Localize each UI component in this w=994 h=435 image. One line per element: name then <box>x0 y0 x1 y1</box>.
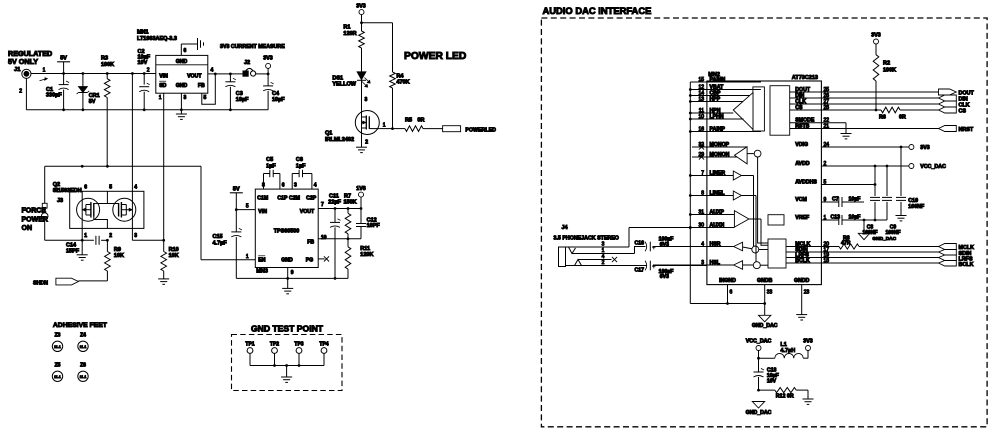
pin AUXP 31 <box>690 209 734 215</box>
svg-text:R5: R5 <box>405 118 412 124</box>
resistor R4 470K <box>390 72 410 130</box>
svg-text:ON: ON <box>22 225 33 232</box>
svg-text:4.7µH: 4.7µH <box>780 348 795 354</box>
connector J4 phonejack <box>554 225 648 267</box>
ground MN3 pin9 <box>282 268 293 294</box>
svg-text:AVDD: AVDD <box>795 161 810 167</box>
svg-text:POWER LED: POWER LED <box>404 51 466 62</box>
svg-text:EN: EN <box>258 257 265 263</box>
svg-text:MONON: MONON <box>710 152 730 158</box>
capacitor C8 100NF <box>862 166 880 236</box>
pin HSL 3 <box>653 260 734 266</box>
svg-text:31: 31 <box>698 209 704 215</box>
resistor R6 0R <box>876 107 939 120</box>
svg-text:47R: 47R <box>841 241 851 247</box>
svg-text:3V3: 3V3 <box>920 145 929 151</box>
svg-text:TP2: TP2 <box>270 341 279 347</box>
svg-text:C6: C6 <box>296 157 303 163</box>
svg-text:GND: GND <box>176 59 188 65</box>
svg-text:1V8: 1V8 <box>356 186 365 192</box>
svg-text:R2: R2 <box>883 61 890 67</box>
wire main 5V rail <box>31 72 156 75</box>
svg-text:6: 6 <box>184 48 187 54</box>
svg-text:5V ONLY: 5V ONLY <box>8 57 38 66</box>
svg-text:10µF: 10µF <box>849 196 861 202</box>
svg-text:MN1: MN1 <box>137 30 149 36</box>
wire MN1 SD column <box>163 93 165 240</box>
svg-text:BCLK: BCLK <box>795 258 810 264</box>
test point TP1 <box>245 341 254 365</box>
svg-text:J3: J3 <box>57 198 63 204</box>
svg-text:PAINN: PAINN <box>710 77 726 83</box>
ground Q1 source <box>356 134 367 152</box>
svg-text:10V: 10V <box>767 378 777 384</box>
wire MN3 FB <box>318 237 361 240</box>
pin GNDB 33 <box>757 278 773 316</box>
svg-text:LINEL: LINEL <box>710 190 726 196</box>
pin MCLK 20 resistor R8 47R <box>786 236 939 250</box>
capacitor C2 10uF 10V <box>138 49 151 110</box>
pin DOUT 25 <box>790 87 939 93</box>
svg-text:11.1: 11.1 <box>54 345 61 349</box>
flag POWERLED <box>443 126 497 134</box>
pin VREF 1 capacitor C13 10uF <box>795 214 887 225</box>
amplifier hsl buffer <box>734 261 768 270</box>
svg-text:30: 30 <box>698 222 704 228</box>
wire C14 row <box>45 239 109 242</box>
svg-text:3V3: 3V3 <box>263 55 272 61</box>
svg-text:1: 1 <box>383 123 386 129</box>
svg-text:1: 1 <box>159 95 162 101</box>
pin MONON 29 <box>692 152 737 160</box>
ground test point <box>281 366 292 383</box>
svg-text:3: 3 <box>134 233 137 239</box>
svg-text:3V3 CURRENT MEASURE: 3V3 CURRENT MEASURE <box>220 44 285 50</box>
svg-text:15PF: 15PF <box>66 248 80 254</box>
ground C10 <box>896 216 907 221</box>
svg-text:330µF: 330µF <box>46 93 62 99</box>
svg-text:100NF: 100NF <box>885 230 900 236</box>
foot Z4 <box>78 333 88 352</box>
svg-text:C2M: C2M <box>289 195 300 201</box>
label 3V3 CURRENT MEASURE <box>220 44 285 50</box>
svg-text:C17: C17 <box>635 268 645 274</box>
svg-text:C7: C7 <box>832 196 839 202</box>
svg-text:5: 5 <box>246 204 249 210</box>
amplifier U-hp triangle <box>733 87 764 131</box>
svg-text:Z3: Z3 <box>55 333 61 339</box>
ground Q2 pin1 <box>77 228 88 260</box>
pin INGND 6 <box>719 278 736 304</box>
pin VCM 9 capacitor C7 10uF <box>795 196 864 207</box>
svg-text:GND_DAC: GND_DAC <box>752 323 778 329</box>
svg-text:VOUT: VOUT <box>300 209 315 215</box>
flag CS <box>939 107 967 115</box>
wire MN1 FB loop <box>202 73 217 105</box>
pin PAINN 15 <box>690 77 761 83</box>
svg-text:120R: 120R <box>343 31 356 37</box>
svg-text:R12 0R: R12 0R <box>776 394 794 400</box>
svg-text:3.5 PHONEJACK STEREO: 3.5 PHONEJACK STEREO <box>554 236 619 242</box>
capacitor C18 10uF 10V <box>754 358 779 391</box>
no-connect jack pin4 <box>612 257 617 262</box>
svg-text:GND_DAC: GND_DAC <box>746 410 772 416</box>
svg-text:SHDN: SHDN <box>33 280 48 286</box>
svg-text:7: 7 <box>701 170 704 176</box>
pin HPN 11 <box>690 108 733 114</box>
svg-text:11.1: 11.1 <box>54 375 61 379</box>
terminal 3V3 output <box>263 55 272 74</box>
wire jack sleeve to bus <box>628 228 630 248</box>
svg-text:1: 1 <box>84 233 87 239</box>
svg-text:BCLK: BCLK <box>959 262 974 268</box>
svg-text:3V3: 3V3 <box>871 33 880 39</box>
svg-text:10K: 10K <box>114 253 124 259</box>
ground GND_DAC analog <box>858 220 896 242</box>
svg-text:AT73C213: AT73C213 <box>792 75 818 81</box>
capacitor C15 4.7uF <box>213 210 242 279</box>
converter MN3 TPS60500 <box>246 183 327 277</box>
svg-text:10: 10 <box>698 114 704 120</box>
svg-text:4: 4 <box>211 68 214 74</box>
svg-text:33: 33 <box>767 290 773 296</box>
box audio dac dashed border <box>541 18 987 427</box>
svg-text:16: 16 <box>698 126 704 132</box>
svg-text:IRLML2402: IRLML2402 <box>325 137 354 143</box>
svg-text:2: 2 <box>19 89 22 95</box>
capacitor C4 10uF <box>263 74 285 110</box>
svg-text:INGND: INGND <box>719 278 736 284</box>
svg-text:10µF: 10µF <box>236 97 249 103</box>
flag DOUT <box>939 89 975 97</box>
svg-text:1: 1 <box>602 248 605 254</box>
wire MN2 left input bus <box>689 82 692 304</box>
pin LINEL 8 <box>690 190 733 196</box>
svg-text:MN3: MN3 <box>256 268 268 274</box>
resistor R3 100K <box>101 56 114 167</box>
wire gate net Q2 <box>45 165 256 260</box>
connector J1 <box>14 67 48 95</box>
box gnd test point <box>232 335 343 391</box>
mosfet Q1 IRLML2402 <box>325 111 386 146</box>
svg-text:VOUT: VOUT <box>187 73 202 79</box>
power 5V bar MN3 <box>230 186 243 211</box>
pin HPP 13 <box>690 96 743 102</box>
svg-text:3: 3 <box>184 95 187 101</box>
label ADHESIVE FEET <box>53 322 108 329</box>
amplifier liner buffer <box>733 171 753 180</box>
pin RSTB 21 <box>790 123 939 129</box>
svg-text:GND: GND <box>281 257 293 263</box>
svg-text:10µF: 10µF <box>272 97 285 103</box>
flag LRFS <box>939 255 973 262</box>
pin GNDD 23 <box>794 278 810 315</box>
svg-text:C15: C15 <box>213 234 223 240</box>
wire MN1 VOUT <box>208 73 270 76</box>
svg-text:C1P: C1P <box>277 195 288 201</box>
power 5V bar <box>57 56 70 74</box>
svg-text:4: 4 <box>314 183 317 189</box>
section title POWER LED <box>404 51 466 62</box>
wire Q2 pin3 to R10 <box>132 228 165 241</box>
svg-text:VCC_DAC: VCC_DAC <box>746 339 772 345</box>
svg-text:6: 6 <box>84 184 87 190</box>
svg-text:2: 2 <box>602 260 605 266</box>
svg-text:TP1: TP1 <box>245 341 254 347</box>
svg-text:32: 32 <box>698 142 704 148</box>
svg-text:PG: PG <box>306 257 314 263</box>
svg-text:R3: R3 <box>101 56 108 62</box>
svg-text:3V3: 3V3 <box>356 4 365 10</box>
resistor R10 10K <box>158 240 179 284</box>
flag MCLK <box>939 244 975 252</box>
terminal 3V3 filter <box>803 339 812 359</box>
terminal VCC_DAC filter <box>746 339 772 360</box>
pin HSR 4 <box>653 241 734 247</box>
amplifier hsr buffer <box>734 242 768 253</box>
pin VBAT 12 <box>690 84 761 90</box>
pin LINER 7 <box>690 170 733 176</box>
label FORCE POWER ON <box>22 208 48 233</box>
flag SDIN <box>939 250 972 257</box>
svg-text:6V3: 6V3 <box>660 242 669 248</box>
test point TP3 <box>294 341 303 365</box>
svg-text:SD: SD <box>159 83 166 89</box>
flag CLK <box>939 101 970 109</box>
led DS1 YELLOW <box>332 72 370 111</box>
svg-text:LINER: LINER <box>710 170 726 176</box>
svg-text:J1: J1 <box>14 67 21 73</box>
resistor R9 10K <box>105 240 124 281</box>
svg-text:120K: 120K <box>360 252 373 258</box>
svg-text:J4: J4 <box>562 225 569 231</box>
wire Q2 pin4 column to 5V <box>131 74 133 192</box>
svg-text:0R: 0R <box>899 115 906 121</box>
foot Z3 <box>52 333 62 352</box>
test point TP4 <box>319 341 328 365</box>
svg-text:3: 3 <box>294 183 297 189</box>
svg-text:4.7µF: 4.7µF <box>213 240 228 246</box>
resistor R2 100K pullup <box>871 33 896 111</box>
pin PAINP 16 <box>690 126 761 132</box>
svg-text:FORCE: FORCE <box>22 208 47 215</box>
svg-text:J2: J2 <box>244 60 250 66</box>
wire R4 branch <box>362 23 393 72</box>
svg-text:FB: FB <box>198 83 205 89</box>
svg-text:R6: R6 <box>879 115 886 121</box>
capacitor C1 330uF <box>46 74 69 110</box>
svg-text:SI1563EDH: SI1563EDH <box>53 188 82 194</box>
svg-text:11.1: 11.1 <box>80 345 87 349</box>
zener diode CR1 5V <box>77 74 100 110</box>
amplifier mono triangle <box>735 147 761 164</box>
svg-text:10PF: 10PF <box>367 223 381 229</box>
svg-text:1: 1 <box>246 254 249 260</box>
capacitor C17 100uF 6V3 <box>635 261 707 280</box>
svg-text:7: 7 <box>321 202 324 208</box>
flag NRST <box>939 126 974 134</box>
svg-text:HPP: HPP <box>710 96 721 102</box>
pin LPHN 10 <box>690 114 743 120</box>
svg-text:23: 23 <box>804 290 810 296</box>
svg-text:MONOP: MONOP <box>710 142 730 148</box>
svg-text:CS: CS <box>959 109 967 115</box>
pin VDIG 24 <box>795 142 909 149</box>
svg-text:HSR: HSR <box>710 241 721 247</box>
pin AVDD 2 <box>795 161 909 168</box>
svg-text:GND: GND <box>176 83 188 89</box>
svg-text:CS: CS <box>795 105 803 111</box>
svg-text:2: 2 <box>365 140 368 146</box>
block VREF ref <box>768 215 784 225</box>
resistor R12 0R <box>759 388 809 400</box>
dual mosfet Q2 SI1563EDH <box>53 182 144 239</box>
svg-text:LT1963AEQ-3.3: LT1963AEQ-3.3 <box>137 36 177 42</box>
jumper J2 current measure <box>243 60 268 76</box>
svg-text:AVDDHS: AVDDHS <box>795 179 817 185</box>
block clock interface <box>768 239 786 268</box>
svg-text:6: 6 <box>282 183 285 189</box>
wire internal bus lines <box>754 157 769 262</box>
svg-text:2: 2 <box>109 233 112 239</box>
svg-text:1: 1 <box>43 68 46 74</box>
svg-text:5V: 5V <box>233 186 240 192</box>
svg-text:13: 13 <box>698 96 704 102</box>
section title AUDIO DAC INTERFACE <box>543 5 652 16</box>
connector J3 <box>41 166 63 240</box>
svg-text:0R: 0R <box>417 118 424 124</box>
svg-text:YELLOW: YELLOW <box>332 82 356 88</box>
svg-text:C13: C13 <box>831 214 841 220</box>
capacitor C11 22uF <box>328 193 341 278</box>
svg-text:Q2: Q2 <box>53 182 60 188</box>
svg-text:VCM: VCM <box>795 197 807 203</box>
svg-text:10µF: 10µF <box>849 214 861 220</box>
svg-text:6: 6 <box>730 290 733 296</box>
block serial interface <box>770 86 790 136</box>
ground GND_DAC main <box>752 315 778 329</box>
svg-text:C16: C16 <box>635 240 645 246</box>
svg-text:9: 9 <box>291 270 294 276</box>
resistor R7 150K <box>344 193 357 239</box>
svg-text:VCC_DAC: VCC_DAC <box>920 164 946 170</box>
svg-text:3: 3 <box>365 97 368 103</box>
pin AVDDHS 5 <box>795 179 876 186</box>
svg-text:Z5: Z5 <box>55 363 61 369</box>
svg-text:5V: 5V <box>89 99 96 105</box>
svg-text:22µF: 22µF <box>328 199 341 205</box>
svg-text:RSTB: RSTB <box>795 123 809 129</box>
svg-text:VREF: VREF <box>795 215 809 221</box>
svg-text:8: 8 <box>701 190 704 196</box>
terminal 3V3 power led <box>356 4 365 32</box>
svg-text:6V3: 6V3 <box>660 274 669 280</box>
dac MN2 AT73C213 box <box>707 72 822 285</box>
capacitor C12 10PF <box>356 209 380 239</box>
svg-text:VIN: VIN <box>258 209 267 215</box>
terminal VCC_DAC avdd <box>909 164 946 171</box>
pin SDIN 17 <box>786 247 939 253</box>
svg-text:5V: 5V <box>60 56 67 62</box>
svg-text:GND TEST POINT: GND TEST POINT <box>251 324 324 334</box>
svg-text:3: 3 <box>701 260 704 266</box>
svg-text:100K: 100K <box>101 62 114 68</box>
amplifier aux triangle <box>734 211 761 228</box>
svg-text:POWERLED: POWERLED <box>465 127 496 133</box>
svg-text:NRST: NRST <box>959 127 974 133</box>
no-connect PG pin <box>318 256 329 261</box>
svg-text:470K: 470K <box>396 80 409 86</box>
svg-text:TPS60500: TPS60500 <box>274 228 299 234</box>
pin CBP 14 <box>690 90 749 96</box>
svg-text:HSL: HSL <box>710 260 721 266</box>
svg-text:LPHN: LPHN <box>710 114 724 120</box>
pin AUXN 30 <box>629 222 734 229</box>
svg-text:PAINP: PAINP <box>710 126 726 132</box>
svg-text:VDIG: VDIG <box>795 142 808 148</box>
pin CLK 27 <box>790 99 939 105</box>
svg-text:AUXP: AUXP <box>710 209 725 215</box>
pin BCLK 18 <box>786 258 939 264</box>
svg-text:TP4: TP4 <box>319 341 328 347</box>
svg-text:5: 5 <box>109 184 112 190</box>
svg-text:Z4: Z4 <box>80 333 86 339</box>
svg-text:POWER: POWER <box>22 216 48 223</box>
svg-text:ADHESIVE FEET: ADHESIVE FEET <box>53 322 108 329</box>
svg-text:3V3: 3V3 <box>803 339 812 345</box>
capacitor C9 100NF <box>882 166 901 236</box>
svg-text:100K: 100K <box>883 68 896 74</box>
ground MN1 pin3 <box>176 93 187 119</box>
svg-text:1µF: 1µF <box>296 163 306 169</box>
svg-text:4: 4 <box>134 184 137 190</box>
capacitor C14 15PF <box>66 236 99 255</box>
svg-text:5: 5 <box>204 95 207 101</box>
flag BCLK <box>939 261 974 268</box>
amplifier linel buffer <box>733 191 756 200</box>
svg-text:FB: FB <box>307 239 314 245</box>
svg-text:10: 10 <box>321 235 327 241</box>
section title REGULATED 5V ONLY <box>8 49 52 66</box>
ground rotated MN1 pin6 <box>181 38 203 55</box>
ground GNDD earth <box>796 315 807 320</box>
ground SMODE <box>841 123 852 139</box>
wire ground rail <box>26 78 268 111</box>
svg-text:3: 3 <box>602 241 605 247</box>
svg-text:100NF: 100NF <box>908 204 925 210</box>
ground earth R12 <box>803 390 814 404</box>
svg-text:GND_DAC: GND_DAC <box>872 236 896 242</box>
capacitor C5 1uF <box>264 157 280 189</box>
capacitor C6 1uF <box>292 157 312 189</box>
svg-text:R1: R1 <box>343 25 350 31</box>
inductor L1 4.7uH <box>759 342 809 358</box>
pin DIN 26 <box>790 93 939 99</box>
wire test point rail <box>250 364 324 367</box>
wire MN3 VOUT 1V8 <box>318 186 366 210</box>
svg-text:10K: 10K <box>169 253 179 259</box>
terminal 3V3 vdig <box>909 145 930 152</box>
svg-text:15: 15 <box>698 77 704 83</box>
svg-text:C5: C5 <box>266 157 273 163</box>
pin LRFS 19 <box>786 252 939 258</box>
svg-text:TP3: TP3 <box>294 341 303 347</box>
capacitor C16 100uF 6V3 <box>635 237 707 254</box>
flag DIN <box>939 95 968 103</box>
resistor R11 120K <box>345 239 373 279</box>
wire MN3 VIN <box>236 204 255 210</box>
pin SMODE 22 <box>790 118 846 124</box>
